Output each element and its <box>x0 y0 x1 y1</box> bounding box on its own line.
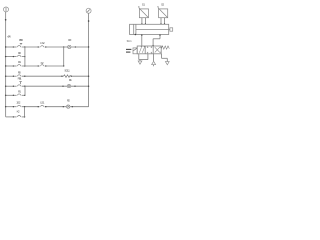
svg-text:R1: R1 <box>18 60 21 64</box>
valve port 3 exhaust line <box>162 54 168 62</box>
proximity sensor S1 <box>138 2 149 17</box>
valve port 5 exhaust line <box>139 54 148 61</box>
svg-text:LS2: LS2 <box>40 41 45 45</box>
svg-text:K2: K2 <box>17 110 20 114</box>
relay contact R0 rung4 <box>13 70 26 76</box>
wire rung 1 <box>6 46 89 48</box>
relay contact K2 seal-in <box>13 110 26 118</box>
valve left position arrows <box>139 47 145 53</box>
valve right position arrows <box>155 46 161 53</box>
power source terminal circle right <box>86 8 91 13</box>
junction dots on right rail <box>88 46 89 87</box>
relay contact K2 <box>38 61 47 66</box>
wire rung 4 <box>6 75 89 77</box>
cylinder A1 body <box>130 24 169 34</box>
sensor S2 legs <box>160 18 165 25</box>
vertical connector x64 rung3 to rung1 <box>63 47 64 67</box>
solenoid connection label marks <box>126 49 131 52</box>
cylinder piston rod <box>136 28 173 31</box>
valve return spring <box>161 46 169 49</box>
limit switch contact LS1 <box>38 100 47 107</box>
node on right rail <box>88 20 90 22</box>
junction dots on left rail <box>5 46 6 107</box>
contact 1S2 <box>13 101 26 108</box>
exhaust triangle left <box>138 61 142 64</box>
valve port 1 supply line <box>153 54 155 61</box>
right return rail 0V <box>88 13 90 107</box>
vertical connector x25 group1 <box>24 47 26 66</box>
svg-text:R2: R2 <box>67 99 70 103</box>
svg-text:R1: R1 <box>18 90 21 94</box>
vertical connector x25 group2 <box>24 86 26 95</box>
relay coil R0 <box>63 38 76 48</box>
relay coil R1 <box>62 78 75 88</box>
svg-text:PB1: PB1 <box>18 77 22 81</box>
node on left rail <box>5 19 7 21</box>
solenoid SOL1 <box>61 69 72 78</box>
svg-text:R0: R0 <box>68 38 71 42</box>
compressed air supply triangle <box>152 61 156 66</box>
proximity sensor S2 <box>157 2 168 17</box>
wire parallel branch 1 <box>6 56 25 58</box>
wire parallel branch 3 <box>6 116 25 118</box>
wire rung 3 <box>6 65 64 67</box>
svg-text:S2: S2 <box>161 2 165 6</box>
svg-text:1S2: 1S2 <box>16 101 21 105</box>
cylinder piston <box>134 24 137 35</box>
valve centre position blocked ports <box>147 46 152 54</box>
pushbutton PB2 <box>13 38 26 47</box>
wire rung 5 <box>6 85 89 87</box>
left supply rail +24V <box>5 12 7 117</box>
relay contact R1 <box>13 60 26 66</box>
limit switch contact LS2 <box>38 41 47 48</box>
vertical connector x25 group3 <box>24 107 26 117</box>
pipe cylinder right port to valve <box>152 34 160 46</box>
svg-text:PB2: PB2 <box>19 38 23 42</box>
svg-text:R0: R0 <box>18 70 21 74</box>
wire parallel branch 2 <box>6 94 25 96</box>
svg-text:R1: R1 <box>69 78 72 82</box>
exhaust triangle right <box>165 62 169 65</box>
svg-text:S1: S1 <box>142 2 146 6</box>
pipe cylinder left port to valve <box>141 34 142 46</box>
pushbutton PB1 <box>13 77 26 87</box>
wire rung 6 <box>6 106 89 108</box>
sensor S1 legs <box>141 18 146 25</box>
relay coil R2 <box>63 99 73 109</box>
svg-text:LS1: LS1 <box>40 100 45 104</box>
relay contact R1 seal-in <box>13 90 26 96</box>
valve V1 body 5/3 <box>137 46 161 54</box>
svg-text:+24V: +24V <box>7 36 11 39</box>
valve solenoid pilot box <box>133 48 137 54</box>
relay contact R0 seal-in <box>13 51 26 57</box>
svg-text:R0: R0 <box>18 51 21 55</box>
svg-text:S0.1: S0.1 <box>127 40 133 43</box>
svg-text:SOL1: SOL1 <box>64 69 70 73</box>
power source terminal circle left <box>4 7 9 12</box>
